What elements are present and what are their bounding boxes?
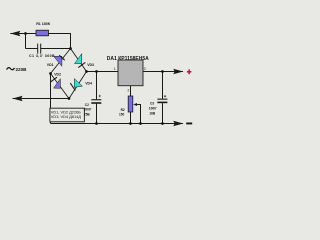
resistor R2	[128, 96, 133, 112]
svg-text:220В: 220В	[16, 67, 28, 72]
wire C1 branch down	[25, 34, 27, 49]
wire C2 top	[96, 72, 98, 100]
annotation box diode types	[50, 108, 85, 122]
junction C2 top	[95, 70, 98, 73]
node bridge left	[49, 72, 52, 75]
wire C3 bottom	[162, 103, 164, 123]
svg-text:3: 3	[144, 67, 146, 71]
diode VD2	[51, 77, 61, 88]
arrow output minus	[173, 121, 183, 127]
wire to C1 left plate	[26, 48, 38, 50]
junction C2 rail	[95, 122, 98, 125]
wire C1 right plate to bridge top node	[41, 48, 71, 50]
wire pin 3 to plus output	[143, 71, 183, 73]
svg-text:VD3, VD4 Д814Д: VD3, VD4 Д814Д	[51, 114, 82, 119]
svg-text:150: 150	[119, 112, 125, 116]
wire bridge left node down to rail	[50, 74, 52, 124]
junction R2 rail	[129, 122, 132, 125]
junction C3 top	[161, 70, 164, 73]
arrow mains top	[10, 31, 20, 37]
junction wiper rail	[139, 122, 142, 125]
capacitor C2	[91, 95, 101, 104]
mains AC tilde symbol	[7, 68, 15, 70]
terminal minus	[186, 123, 192, 125]
node bridge top	[69, 47, 72, 50]
arrow mains bottom	[13, 96, 23, 102]
svg-text:C3: C3	[150, 102, 154, 106]
svg-text:VD1: VD1	[47, 63, 54, 67]
node bridge bottom	[68, 97, 71, 100]
svg-text:1000': 1000'	[149, 107, 157, 111]
wire R2 wiper to rail	[137, 105, 141, 124]
wire pin 2 to R2	[130, 86, 132, 96]
arrow output plus	[173, 69, 183, 75]
junction C1 branch	[24, 32, 27, 35]
svg-text:VD3: VD3	[87, 63, 94, 67]
wire C2 bottom	[96, 103, 98, 123]
junction C3 rail	[161, 122, 164, 125]
svg-text:DA1 КР1158ЕН5А: DA1 КР1158ЕН5А	[107, 56, 149, 62]
capacitor C1	[37, 44, 41, 54]
resistor R1	[36, 30, 49, 36]
wire bridge edge left-bottom	[51, 74, 70, 99]
diode VD1	[54, 55, 65, 66]
wire C3 top	[162, 72, 164, 99]
node bridge right	[85, 70, 88, 73]
svg-text:VD2: VD2	[54, 72, 61, 76]
wire mains top to bridge top node	[10, 34, 70, 49]
diode VD4	[70, 79, 82, 91]
wire R2 bottom	[130, 112, 132, 124]
wire bridge edge bottom-right	[69, 72, 87, 99]
R2 wiper arrowhead	[133, 103, 137, 106]
wire mains bottom to bridge bottom node	[13, 98, 70, 100]
svg-text:1: 1	[114, 67, 116, 71]
terminal plus	[187, 69, 192, 74]
svg-text:C2: C2	[85, 103, 89, 107]
diode VD3	[75, 54, 86, 68]
capacitor C3	[157, 95, 167, 103]
regulator DA1 body	[118, 60, 143, 86]
svg-text:2: 2	[127, 88, 129, 92]
svg-text:VD4: VD4	[85, 81, 92, 85]
wire bridge edge top-right	[71, 49, 87, 72]
wire bridge right node to pin 1	[87, 71, 119, 73]
svg-text:16В: 16В	[149, 111, 156, 115]
svg-text:C1 3,3' 360В: C1 3,3' 360В	[29, 54, 55, 58]
svg-text:25В: 25В	[84, 113, 91, 117]
svg-text:R1 180K: R1 180K	[36, 22, 51, 26]
svg-text:2000': 2000'	[84, 108, 92, 112]
wire bottom rail	[51, 123, 184, 125]
wire bridge edge left-top	[51, 49, 71, 74]
